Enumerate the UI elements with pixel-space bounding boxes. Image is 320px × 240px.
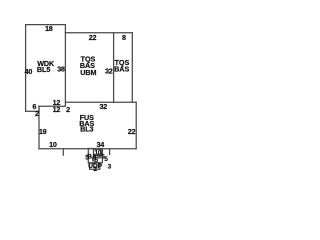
svg-text:40: 40 [25, 67, 33, 76]
svg-text:2: 2 [66, 105, 70, 114]
svg-text:38: 38 [57, 65, 65, 74]
svg-text:12: 12 [53, 105, 61, 114]
wall: FUS bottom edge (10 + 34) [39, 148, 136, 150]
svg-text:BL3: BL3 [80, 124, 93, 133]
wall: WDK bottom edge (12) shared with FUS top [39, 105, 65, 107]
wall: WDK right edge (38) [64, 25, 66, 107]
svg-text:10: 10 [49, 140, 57, 149]
svg-text:2: 2 [35, 109, 39, 118]
wall: bottom of TQS sections / FUS top edge (32) [65, 101, 136, 103]
wall: divider between TQS BAS UBM and TQS BAS [113, 33, 115, 103]
small box around 10 label [94, 149, 102, 155]
svg-text:32: 32 [100, 102, 108, 111]
svg-text:BL5: BL5 [37, 65, 50, 74]
svg-text:UBM: UBM [80, 68, 96, 77]
wall: WDK left edge (40) [25, 25, 27, 112]
tick: dimension separator at 10/34 split [62, 149, 64, 155]
svg-text:22: 22 [89, 33, 97, 42]
tick: dimension separator right of BAS porch [109, 149, 111, 155]
svg-text:8: 8 [122, 33, 126, 42]
svg-text:19: 19 [39, 127, 47, 136]
svg-text:22: 22 [128, 127, 136, 136]
svg-text:5: 5 [104, 156, 108, 163]
BAS small porch box [88, 149, 102, 163]
wall: TQS sections top edge (22 + 8) [65, 32, 132, 34]
wall: TQS BAS right edge (8 box) [131, 33, 133, 103]
wall: FUS right edge (22) [135, 102, 137, 149]
svg-text:3: 3 [108, 163, 112, 170]
wall: FUS left edge (19) [38, 106, 40, 149]
svg-text:34: 34 [97, 140, 105, 149]
UDP small porch box [90, 163, 100, 170]
svg-text:32: 32 [105, 67, 113, 76]
svg-text:18: 18 [45, 24, 53, 33]
wall: WDK bottom step (2) [38, 106, 40, 111]
wall: WDK top edge (18) [26, 24, 65, 26]
wall: WDK bottom-left segment (6) [26, 110, 39, 112]
svg-text:BAS: BAS [114, 64, 129, 73]
